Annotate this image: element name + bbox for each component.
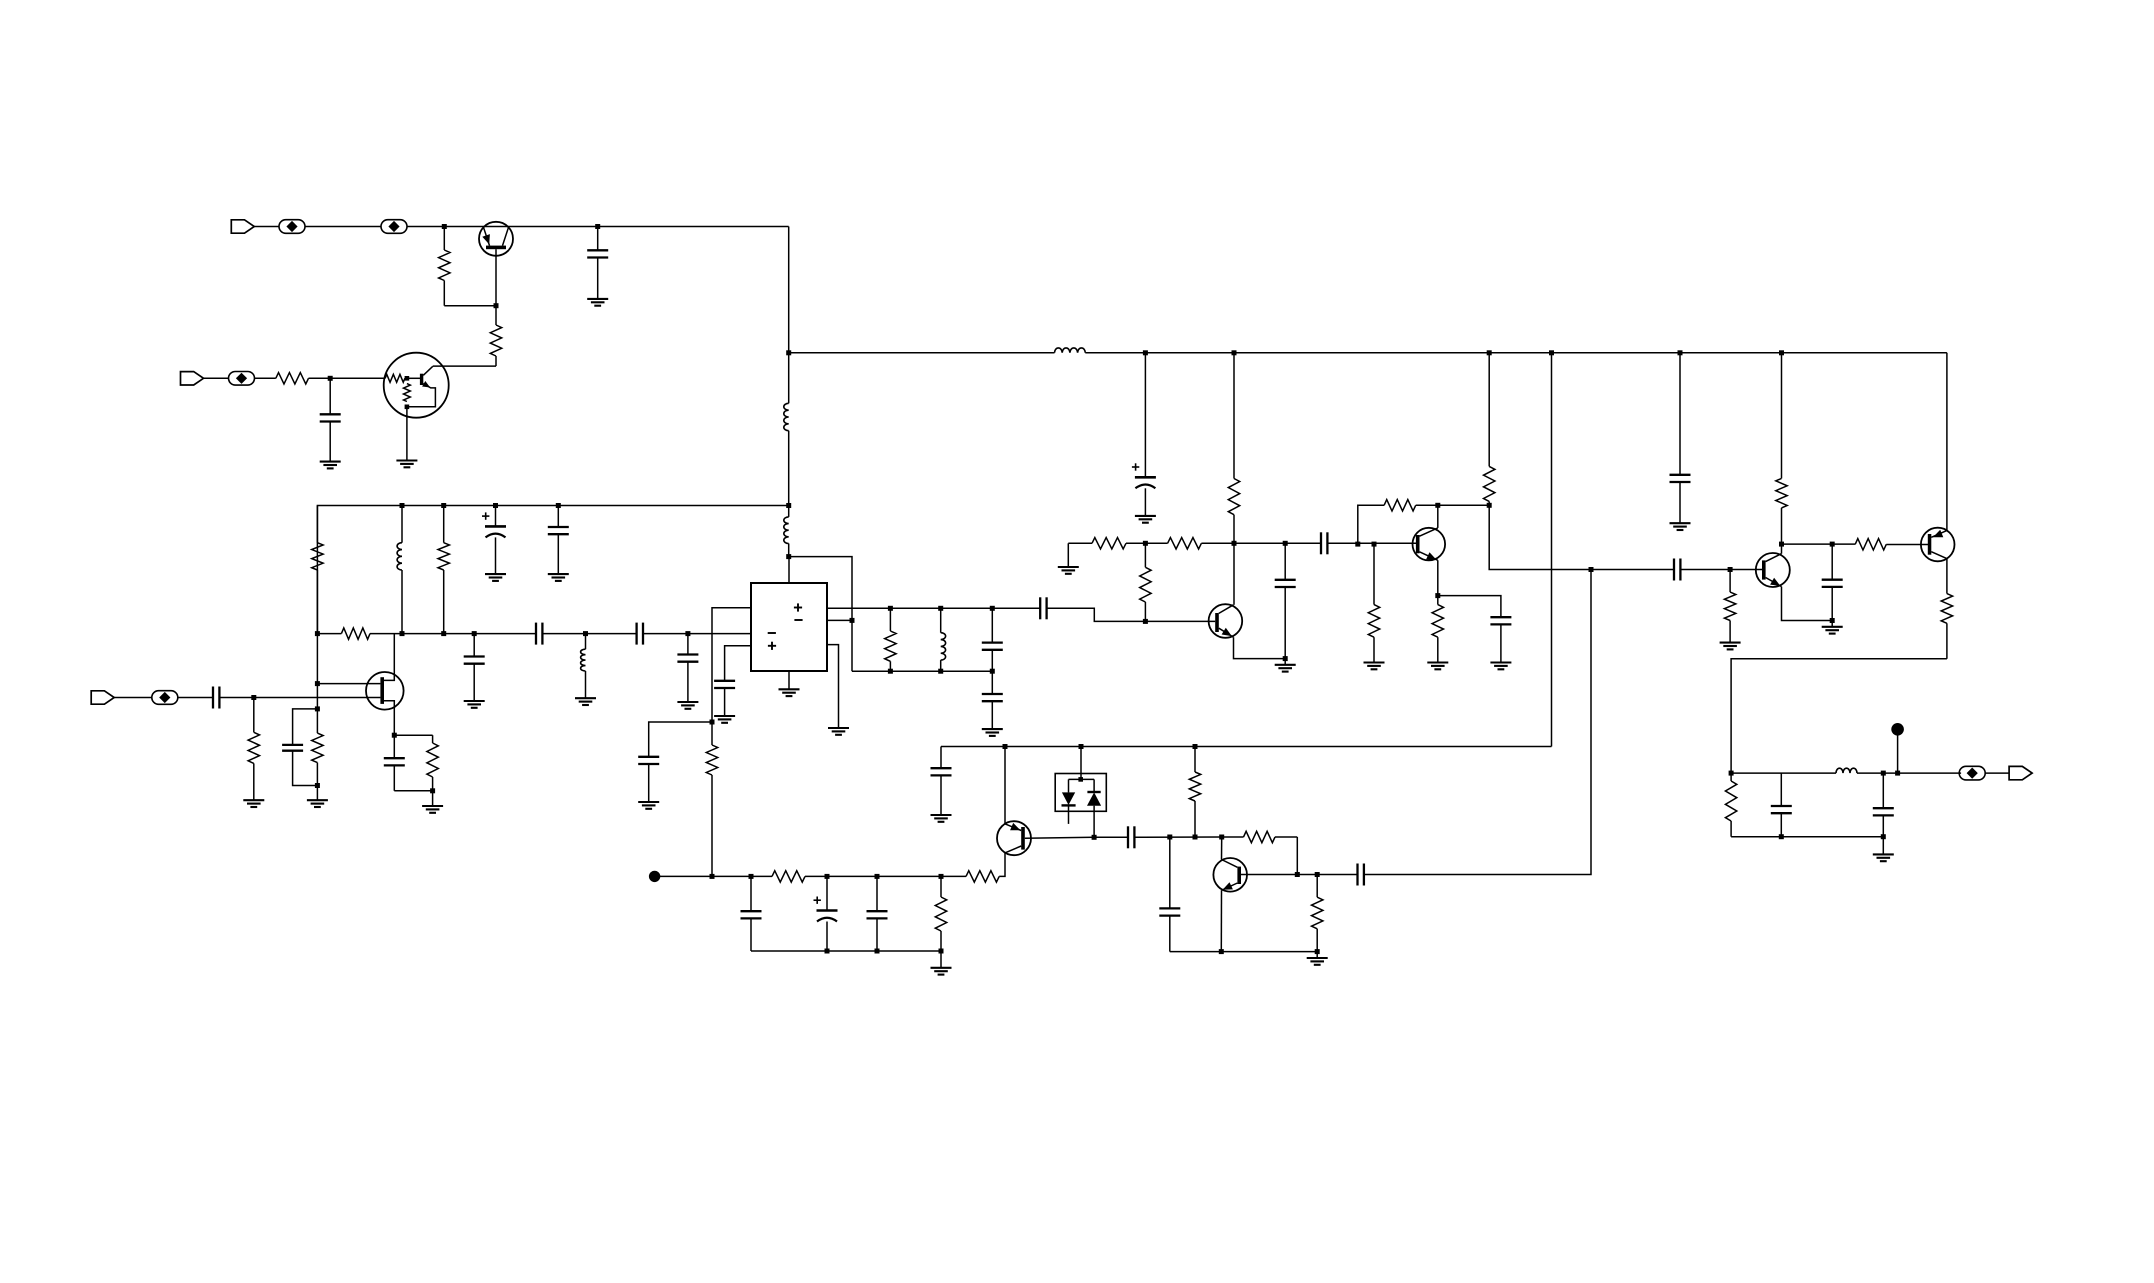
op-amp U1 label - (left)	[768, 632, 776, 634]
node Q8 collector junction	[1779, 542, 1784, 547]
node L4 bottom junction	[400, 631, 405, 636]
node Q3 source junction	[392, 733, 397, 738]
test point TP2	[1891, 723, 1904, 773]
ground below R19	[1427, 663, 1448, 670]
wire output rail	[1731, 772, 1961, 774]
capacitor C28	[1873, 773, 1894, 837]
wire bus to L2	[788, 353, 790, 404]
wire U1 gnd pin right	[827, 645, 839, 728]
resistor R7	[312, 709, 323, 786]
op-amp U1 label + (right top)	[794, 603, 802, 611]
resistor R19	[1432, 596, 1443, 663]
wire FB3 to R2	[255, 377, 276, 379]
node bus-1551 junction	[1549, 350, 1554, 355]
node C27 bottom junction	[1779, 834, 1784, 839]
node C3 top junction	[493, 503, 498, 508]
node C26 top junction	[1830, 542, 1835, 547]
wire Q8 collector right	[1782, 543, 1833, 545]
wire Q7 emitter right	[1438, 596, 1501, 618]
wire C25 to Q8 base node	[1680, 569, 1730, 571]
wire TP1 rail	[655, 875, 966, 877]
capacitor C20	[1490, 617, 1511, 662]
node R12-R13 junction	[1143, 541, 1148, 546]
wire Q6 emitter down	[1220, 890, 1222, 951]
node E junction	[251, 695, 256, 700]
wire P1 to FB1	[254, 226, 279, 228]
node C30 top junction	[825, 874, 830, 879]
ground below U1 right pin	[828, 728, 849, 735]
inductor L3	[784, 517, 789, 544]
node R20 bottom junction	[1193, 835, 1198, 840]
capacitor C19 (series)	[1321, 532, 1327, 554]
node Q5 base junction	[1143, 619, 1148, 624]
node Q8 emitter junction	[1830, 618, 1835, 623]
ground below rail	[1058, 567, 1079, 574]
wire oscillator top rail	[317, 506, 788, 634]
connector P1 (input 1)	[231, 220, 254, 233]
ground below Q6 rail	[1307, 952, 1328, 965]
wire Q9 collector loop	[1731, 659, 1947, 773]
wire Q4 collector down	[999, 853, 1005, 877]
resistor R26	[1941, 594, 1952, 659]
node Q4 emitter junction	[1003, 744, 1008, 749]
inductor L4	[397, 506, 402, 634]
capacitor C11	[384, 735, 405, 791]
node RLC-L bottom junction	[938, 669, 943, 674]
capacitor C30 (electrolytic)	[814, 876, 838, 951]
node RLC-C bottom junction	[990, 669, 995, 674]
ground below R8	[243, 800, 264, 807]
wire feedback left	[649, 722, 712, 757]
node C29 top junction	[749, 874, 754, 879]
wire base node to Q8	[1730, 569, 1762, 571]
ground below Q2	[396, 461, 417, 468]
resistor R5	[438, 506, 449, 634]
capacitor C6 (series)	[536, 623, 542, 645]
wire Q6 collector-feedback rail	[1222, 836, 1298, 838]
node R7 top junction	[315, 706, 320, 711]
wire source node right	[394, 734, 432, 736]
ground below R9	[422, 791, 443, 813]
resistor R16	[1384, 500, 1416, 511]
wire Q8 collector up	[1781, 544, 1783, 554]
resistor R6	[341, 628, 370, 639]
ground below C13	[714, 716, 735, 723]
resistor R30	[966, 871, 999, 882]
node R10 bottom junction	[710, 874, 715, 879]
op-amp U1 label + (left)	[768, 642, 776, 650]
resistor R8	[248, 698, 259, 801]
resistor R18	[1484, 353, 1495, 506]
node C18 top junction	[1283, 541, 1288, 546]
node Q7 base-R17 junction	[1372, 542, 1377, 547]
wire U1 left pin up	[712, 608, 751, 722]
capacitor C24 (series)	[1358, 864, 1364, 886]
node Q4 base junction	[1092, 835, 1097, 840]
capacitor C1	[587, 227, 608, 299]
node Q7 collector junction	[1435, 503, 1440, 508]
capacitor C32	[1670, 353, 1691, 523]
wire P2 to FB3	[204, 377, 229, 379]
node bus-R15b junction	[1232, 350, 1237, 355]
capacitor C13	[714, 681, 735, 716]
ground below C3	[485, 574, 506, 581]
node bus-left junction	[786, 350, 791, 355]
node RLC-R top junction	[888, 606, 893, 611]
resistor R20	[1189, 747, 1200, 838]
wire R2 to node B	[309, 377, 331, 379]
node Q7 base-R16 junction	[1355, 542, 1360, 547]
capacitor C16 (series)	[1040, 597, 1046, 619]
ferrite bead FB4	[152, 691, 178, 705]
wire pi-filter bottom rail	[751, 950, 941, 952]
connector P2 (input 2)	[181, 372, 204, 385]
node A junction	[442, 224, 447, 229]
wire R1 to Q1 base node	[444, 305, 496, 307]
ground below C21	[931, 815, 952, 822]
capacitor C27	[1771, 773, 1792, 837]
resistor R22	[1312, 875, 1323, 952]
node R20 top junction	[1193, 744, 1198, 749]
node Q7 emitter junction	[1435, 593, 1440, 598]
wire top-left corner down	[788, 227, 790, 353]
node B junction	[328, 376, 333, 381]
ground below Q8 emitter	[1822, 621, 1843, 634]
node L5 junction	[583, 631, 588, 636]
wire Q2 collector	[433, 365, 496, 367]
wire Q7 collector up	[1437, 505, 1439, 528]
node R29 bottom junction	[939, 949, 944, 954]
resistor R14	[1140, 543, 1151, 621]
capacitor C3 (electrolytic)	[482, 506, 506, 575]
resistor R27	[1725, 773, 1736, 837]
capacitor C26	[1822, 544, 1843, 620]
resistor R9	[427, 735, 438, 791]
node gate1 junction	[315, 681, 320, 686]
capacitor C31	[867, 876, 888, 951]
wire C24 right and up	[1364, 570, 1591, 875]
node Q8 base junction	[1728, 567, 1733, 572]
capacitor C2	[320, 378, 341, 461]
ferrite bead FB1	[279, 220, 305, 234]
capacitor C4	[548, 506, 569, 575]
ground output	[1873, 854, 1894, 861]
node Q5 emitter junction	[1283, 656, 1288, 661]
node Q1 base junction	[494, 303, 499, 308]
resistor R10	[706, 722, 717, 876]
ground below C2	[320, 462, 341, 469]
op-amp U1 box	[751, 583, 827, 671]
node C1 top junction	[595, 224, 600, 229]
capacitor C9 (parallel loop)	[282, 709, 317, 786]
transistor Q8 (NPN)	[1756, 553, 1790, 587]
wire U1 +in pin	[725, 646, 751, 681]
ground below C8	[677, 702, 698, 709]
ferrite bead FB5	[1959, 766, 1985, 780]
wire Q7 feedback	[1358, 505, 1384, 543]
capacitor C8	[677, 634, 698, 702]
ground below C15	[982, 729, 1003, 736]
wire 1591 to C25	[1591, 569, 1674, 571]
transistor Q3 (dual-gate FET)	[317, 634, 403, 736]
wire Q1 base	[495, 249, 497, 306]
node feedback junction	[710, 720, 715, 725]
ground below Q5 emitter	[1275, 659, 1296, 672]
wire rail end to ground	[1067, 543, 1069, 567]
wire FB5 to P4	[1985, 772, 2009, 774]
node bus-R24 junction	[1779, 350, 1784, 355]
wire feedback down	[1296, 837, 1298, 875]
capacitor C7 (series)	[637, 623, 643, 645]
wire C16 to Q5 base	[1047, 608, 1216, 621]
resistor R4	[312, 506, 323, 634]
wire output bottom rail	[1731, 836, 1883, 838]
node bus-R18 junction	[1487, 350, 1492, 355]
ground below R23	[1720, 643, 1741, 650]
ferrite bead FB2	[381, 220, 407, 234]
node C4 top junction	[556, 503, 561, 508]
inductor L5	[581, 634, 586, 699]
node D junction	[786, 554, 791, 559]
node RLC-C top junction	[990, 606, 995, 611]
wire node E to FET gate2	[254, 697, 381, 699]
wire C10 to node E	[219, 697, 253, 699]
node R5 top junction	[441, 503, 446, 508]
wire gate bias rail	[317, 633, 751, 635]
capacitor C25 (series)	[1674, 559, 1680, 581]
node C30 bottom junction	[825, 949, 830, 954]
wire 746-rail up to bus	[1551, 353, 1553, 747]
node out- junction	[850, 618, 855, 623]
wire 746-rail	[941, 746, 1552, 748]
node Q6 collector junction	[1219, 835, 1224, 840]
wire R7 bottom to ground	[316, 786, 318, 801]
wire U1 out- pin	[827, 619, 852, 621]
node bus-R15 junction	[1143, 350, 1148, 355]
wire collector rail	[1068, 542, 1416, 544]
ground below C12	[638, 802, 659, 809]
capacitor C10 (series)	[213, 687, 219, 709]
wire node C to L3	[788, 506, 790, 517]
wire R4 node down	[316, 634, 318, 684]
wire Q4 emitter up	[1004, 747, 1006, 824]
resistor R17	[1368, 543, 1379, 662]
ground below C1	[587, 299, 608, 306]
wire Q5 emitter	[1234, 637, 1286, 658]
node Q6 base-R22 junction	[1315, 872, 1320, 877]
wire node A through Q1 to corner	[444, 226, 788, 228]
ferrite bead FB3	[229, 372, 255, 386]
node C28 top junction	[1881, 771, 1886, 776]
wire R16 to Q7 collector node	[1416, 504, 1438, 506]
transistor Q5 (NPN)	[1209, 604, 1243, 638]
inductor L1 (bus)	[1055, 348, 1086, 353]
wire P3 to FB4	[114, 697, 152, 699]
capacitor C21	[931, 747, 952, 816]
wire Q8 emitter down	[1782, 587, 1833, 621]
resistor R29	[935, 876, 946, 951]
node R9 bottom junction	[430, 788, 435, 793]
node R7 bottom junction	[315, 783, 320, 788]
node C28 bottom junction	[1881, 834, 1886, 839]
wire Q7 collector node right	[1438, 504, 1489, 506]
inductor L2	[784, 403, 789, 430]
node C23 top junction	[1167, 835, 1172, 840]
inductor L7 (output)	[1836, 768, 1857, 773]
capacitor C29	[741, 876, 762, 951]
inductor L6	[941, 608, 946, 671]
node R4 bottom junction	[315, 631, 320, 636]
ground below L5	[575, 698, 596, 705]
wire Q6 bottom rail	[1170, 951, 1317, 953]
node output junction	[1729, 771, 1734, 776]
node Q6 emitter bottom junction	[1219, 949, 1224, 954]
resistor R28	[772, 871, 805, 882]
resistor R1	[439, 227, 450, 306]
resistor R3	[490, 306, 501, 366]
wire FB1 to FB2	[305, 226, 381, 228]
transistor Q2 (digital transistor with bias resistors)	[384, 353, 449, 418]
wire Q5 collector	[1233, 543, 1235, 605]
node Q6 base-feedback junction	[1295, 872, 1300, 877]
ground below C20	[1490, 663, 1511, 670]
wire Q7 emitter down	[1437, 560, 1439, 595]
wire U1 top pin	[788, 557, 790, 583]
wire U1 bottom pin	[788, 671, 790, 689]
node R29 top junction	[939, 874, 944, 879]
test point TP1	[649, 871, 660, 882]
resistor R25	[1832, 539, 1928, 550]
wire Q2 emitter to ground	[406, 407, 408, 461]
node RLC-L top junction	[938, 606, 943, 611]
transistor Q6 (NPN)	[1213, 858, 1247, 892]
transistor Q4 (PNP)	[997, 821, 1031, 855]
wire main top bus	[789, 352, 1947, 354]
wire L2 to node C	[788, 431, 790, 506]
wire RLC bottom rail	[852, 670, 992, 672]
wire Q6 collector up	[1221, 837, 1223, 860]
ground below R7	[307, 800, 328, 807]
node R22 bottom junction	[1315, 949, 1320, 954]
node L4 top junction	[400, 503, 405, 508]
wire Q9 collector down	[1946, 559, 1948, 594]
capacitor C22 (series)	[1128, 826, 1134, 848]
ground below U1	[779, 689, 800, 696]
node TP2 junction	[1895, 771, 1900, 776]
resistor R11	[885, 608, 896, 671]
node diode junction top	[1079, 744, 1084, 749]
node R5 bottom junction	[441, 631, 446, 636]
capacitor C23	[1159, 837, 1180, 952]
wire FB2 to node A	[407, 226, 444, 228]
ground below pi filter	[931, 968, 952, 975]
ground below C5	[464, 701, 485, 708]
wire U1 out+ rail	[827, 607, 1040, 609]
node R18 bottom junction	[1487, 503, 1492, 508]
node C8 junction	[685, 631, 690, 636]
wire C11 bottom	[394, 790, 432, 792]
capacitor C15	[982, 671, 1003, 729]
node RLC-R bottom junction	[888, 669, 893, 674]
capacitor C17 (electrolytic)	[1132, 353, 1156, 516]
resistor R2	[276, 373, 309, 384]
node C junction	[786, 503, 791, 508]
resistor R15	[1228, 353, 1239, 544]
wire node B to Q2	[330, 377, 385, 379]
resistor R23	[1724, 570, 1735, 643]
resistor R12	[1092, 538, 1126, 549]
wire Q4 base right	[1025, 836, 1094, 839]
connector P4 (output)	[2009, 766, 2032, 779]
resistor R24	[1776, 353, 1787, 544]
node C31 bottom junction	[875, 949, 880, 954]
transistor Q7 (NPN)	[1413, 528, 1446, 561]
connector P3 (input 3)	[91, 691, 114, 704]
node C5 junction	[472, 631, 477, 636]
node C31 top junction	[875, 874, 880, 879]
diode pair D1 (anti-parallel)	[1055, 747, 1106, 838]
wire node D to corner	[789, 557, 852, 672]
wire bottom rail to ground	[1882, 837, 1884, 855]
resistor R13	[1168, 538, 1202, 549]
node bus-C32 junction	[1678, 350, 1683, 355]
wire R29 bottom to ground	[940, 951, 942, 968]
node Q5 collector junction	[1232, 541, 1237, 546]
wire Q6 base right	[1241, 874, 1358, 876]
wire FB4 to C10	[178, 697, 213, 699]
wire base node to C22	[1094, 836, 1128, 838]
wire gate1 node down	[316, 684, 318, 709]
ground below C17	[1135, 516, 1156, 523]
wire L3 to node D	[788, 544, 790, 557]
capacitor C14	[982, 608, 1003, 671]
wire R18 node down-right	[1489, 505, 1591, 569]
node 1591 junction	[1589, 567, 1594, 572]
wire Q9 emitter to bus	[1946, 353, 1948, 531]
capacitor C12	[638, 757, 659, 802]
transistor Q1 (PNP)	[479, 222, 513, 256]
resistor R21	[1244, 831, 1276, 842]
wire C22 to Q6 collector rail	[1134, 836, 1221, 838]
capacitor C18	[1275, 543, 1296, 658]
op-amp U1 label - (right)	[794, 619, 802, 621]
transistor Q9 (PNP)	[1921, 528, 1955, 562]
capacitor C5	[464, 634, 485, 701]
ground below R17	[1364, 663, 1385, 670]
ground below C4	[548, 574, 569, 581]
ground below C32	[1670, 523, 1691, 530]
